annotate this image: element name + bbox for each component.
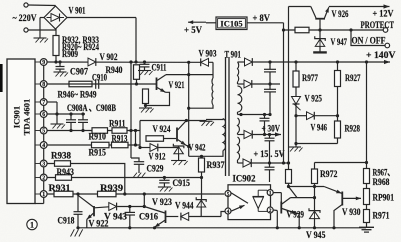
svg-text:V 929: V 929 <box>287 210 305 220</box>
svg-text:3: 3 <box>42 162 45 168</box>
svg-text:C915: C915 <box>173 178 191 188</box>
svg-text:V 925: V 925 <box>305 94 323 104</box>
svg-text:V 912: V 912 <box>149 152 166 162</box>
svg-text:R943: R943 <box>57 167 75 177</box>
svg-text:V 923: V 923 <box>152 197 172 207</box>
svg-text:RP901: RP901 <box>373 193 395 203</box>
svg-text:+ 30V: + 30V <box>262 124 281 134</box>
svg-text:V 903: V 903 <box>199 49 217 59</box>
svg-text:V 930: V 930 <box>342 207 361 217</box>
svg-text:PROTECT: PROTECT <box>361 20 395 30</box>
svg-text:1: 1 <box>42 192 45 198</box>
svg-text:C907: C907 <box>70 67 88 77</box>
svg-text:R977: R977 <box>302 73 318 83</box>
svg-text:T 901: T 901 <box>225 50 242 60</box>
svg-text:2: 2 <box>42 176 45 182</box>
svg-text:R971: R971 <box>373 211 390 221</box>
svg-text:R967、: R967、 <box>373 168 395 178</box>
svg-text:R928: R928 <box>345 124 361 134</box>
svg-text:~ 220V: ~ 220V <box>13 13 37 23</box>
svg-text:2: 2 <box>269 208 272 214</box>
svg-text:R931: R931 <box>49 183 72 193</box>
svg-text:V 942: V 942 <box>189 143 206 153</box>
svg-text:1: 1 <box>269 191 272 197</box>
svg-text:R968: R968 <box>373 177 390 187</box>
svg-text:C911: C911 <box>152 63 167 73</box>
svg-text:9: 9 <box>42 60 45 66</box>
svg-text:IC902: IC902 <box>233 174 256 184</box>
svg-text:V 944: V 944 <box>175 201 194 211</box>
svg-text:V 921: V 921 <box>169 80 185 90</box>
svg-text:V 926: V 926 <box>332 9 349 19</box>
svg-text:V 901: V 901 <box>69 6 86 16</box>
svg-text:R946~ R949: R946~ R949 <box>58 89 97 99</box>
svg-text:TDA 4601: TDA 4601 <box>22 99 32 136</box>
svg-text:R937: R937 <box>207 160 225 170</box>
svg-text:C916: C916 <box>139 212 158 222</box>
svg-text:5: 5 <box>42 129 45 135</box>
svg-text:C918: C918 <box>58 216 75 226</box>
svg-text:ON / OFF: ON / OFF <box>352 36 386 46</box>
svg-text:V 947: V 947 <box>331 37 348 47</box>
svg-text:+ 12V: + 12V <box>373 9 394 19</box>
svg-text:C929: C929 <box>147 164 164 174</box>
svg-text:+ 140V: + 140V <box>366 50 396 60</box>
svg-text:8: 8 <box>42 82 45 88</box>
svg-text:C908A 、C908B: C908A 、C908B <box>67 103 116 113</box>
svg-text:7: 7 <box>42 100 45 106</box>
svg-text:V 946: V 946 <box>311 123 328 133</box>
svg-text:C910: C910 <box>92 73 107 83</box>
svg-text:R913: R913 <box>112 134 128 144</box>
svg-text:R938: R938 <box>51 151 71 161</box>
svg-text:1: 1 <box>30 221 34 230</box>
svg-text:R910: R910 <box>89 132 107 142</box>
svg-text:V 943: V 943 <box>104 212 128 222</box>
svg-text:V 924: V 924 <box>153 124 171 134</box>
svg-text:R939: R939 <box>100 183 124 193</box>
svg-text:IC105: IC105 <box>220 19 242 29</box>
svg-text:IC901: IC901 <box>12 106 22 128</box>
svg-text:R940: R940 <box>106 65 123 75</box>
svg-text:R915: R915 <box>89 148 107 158</box>
svg-text:+ 15 . 5V: + 15 . 5V <box>254 149 285 159</box>
svg-text:+ 5V: + 5V <box>184 25 202 35</box>
svg-text:R927: R927 <box>345 73 361 83</box>
svg-text:V 902: V 902 <box>100 52 118 62</box>
svg-text:V 945: V 945 <box>306 230 326 240</box>
svg-text:R972: R972 <box>320 169 338 179</box>
svg-text:5: 5 <box>227 192 230 198</box>
svg-text:4: 4 <box>42 143 45 149</box>
svg-text:6: 6 <box>42 112 45 118</box>
svg-text:R911: R911 <box>109 118 126 128</box>
svg-text:4: 4 <box>227 209 230 215</box>
svg-text:+ 8V: + 8V <box>253 13 271 23</box>
svg-text:R909: R909 <box>62 49 78 59</box>
